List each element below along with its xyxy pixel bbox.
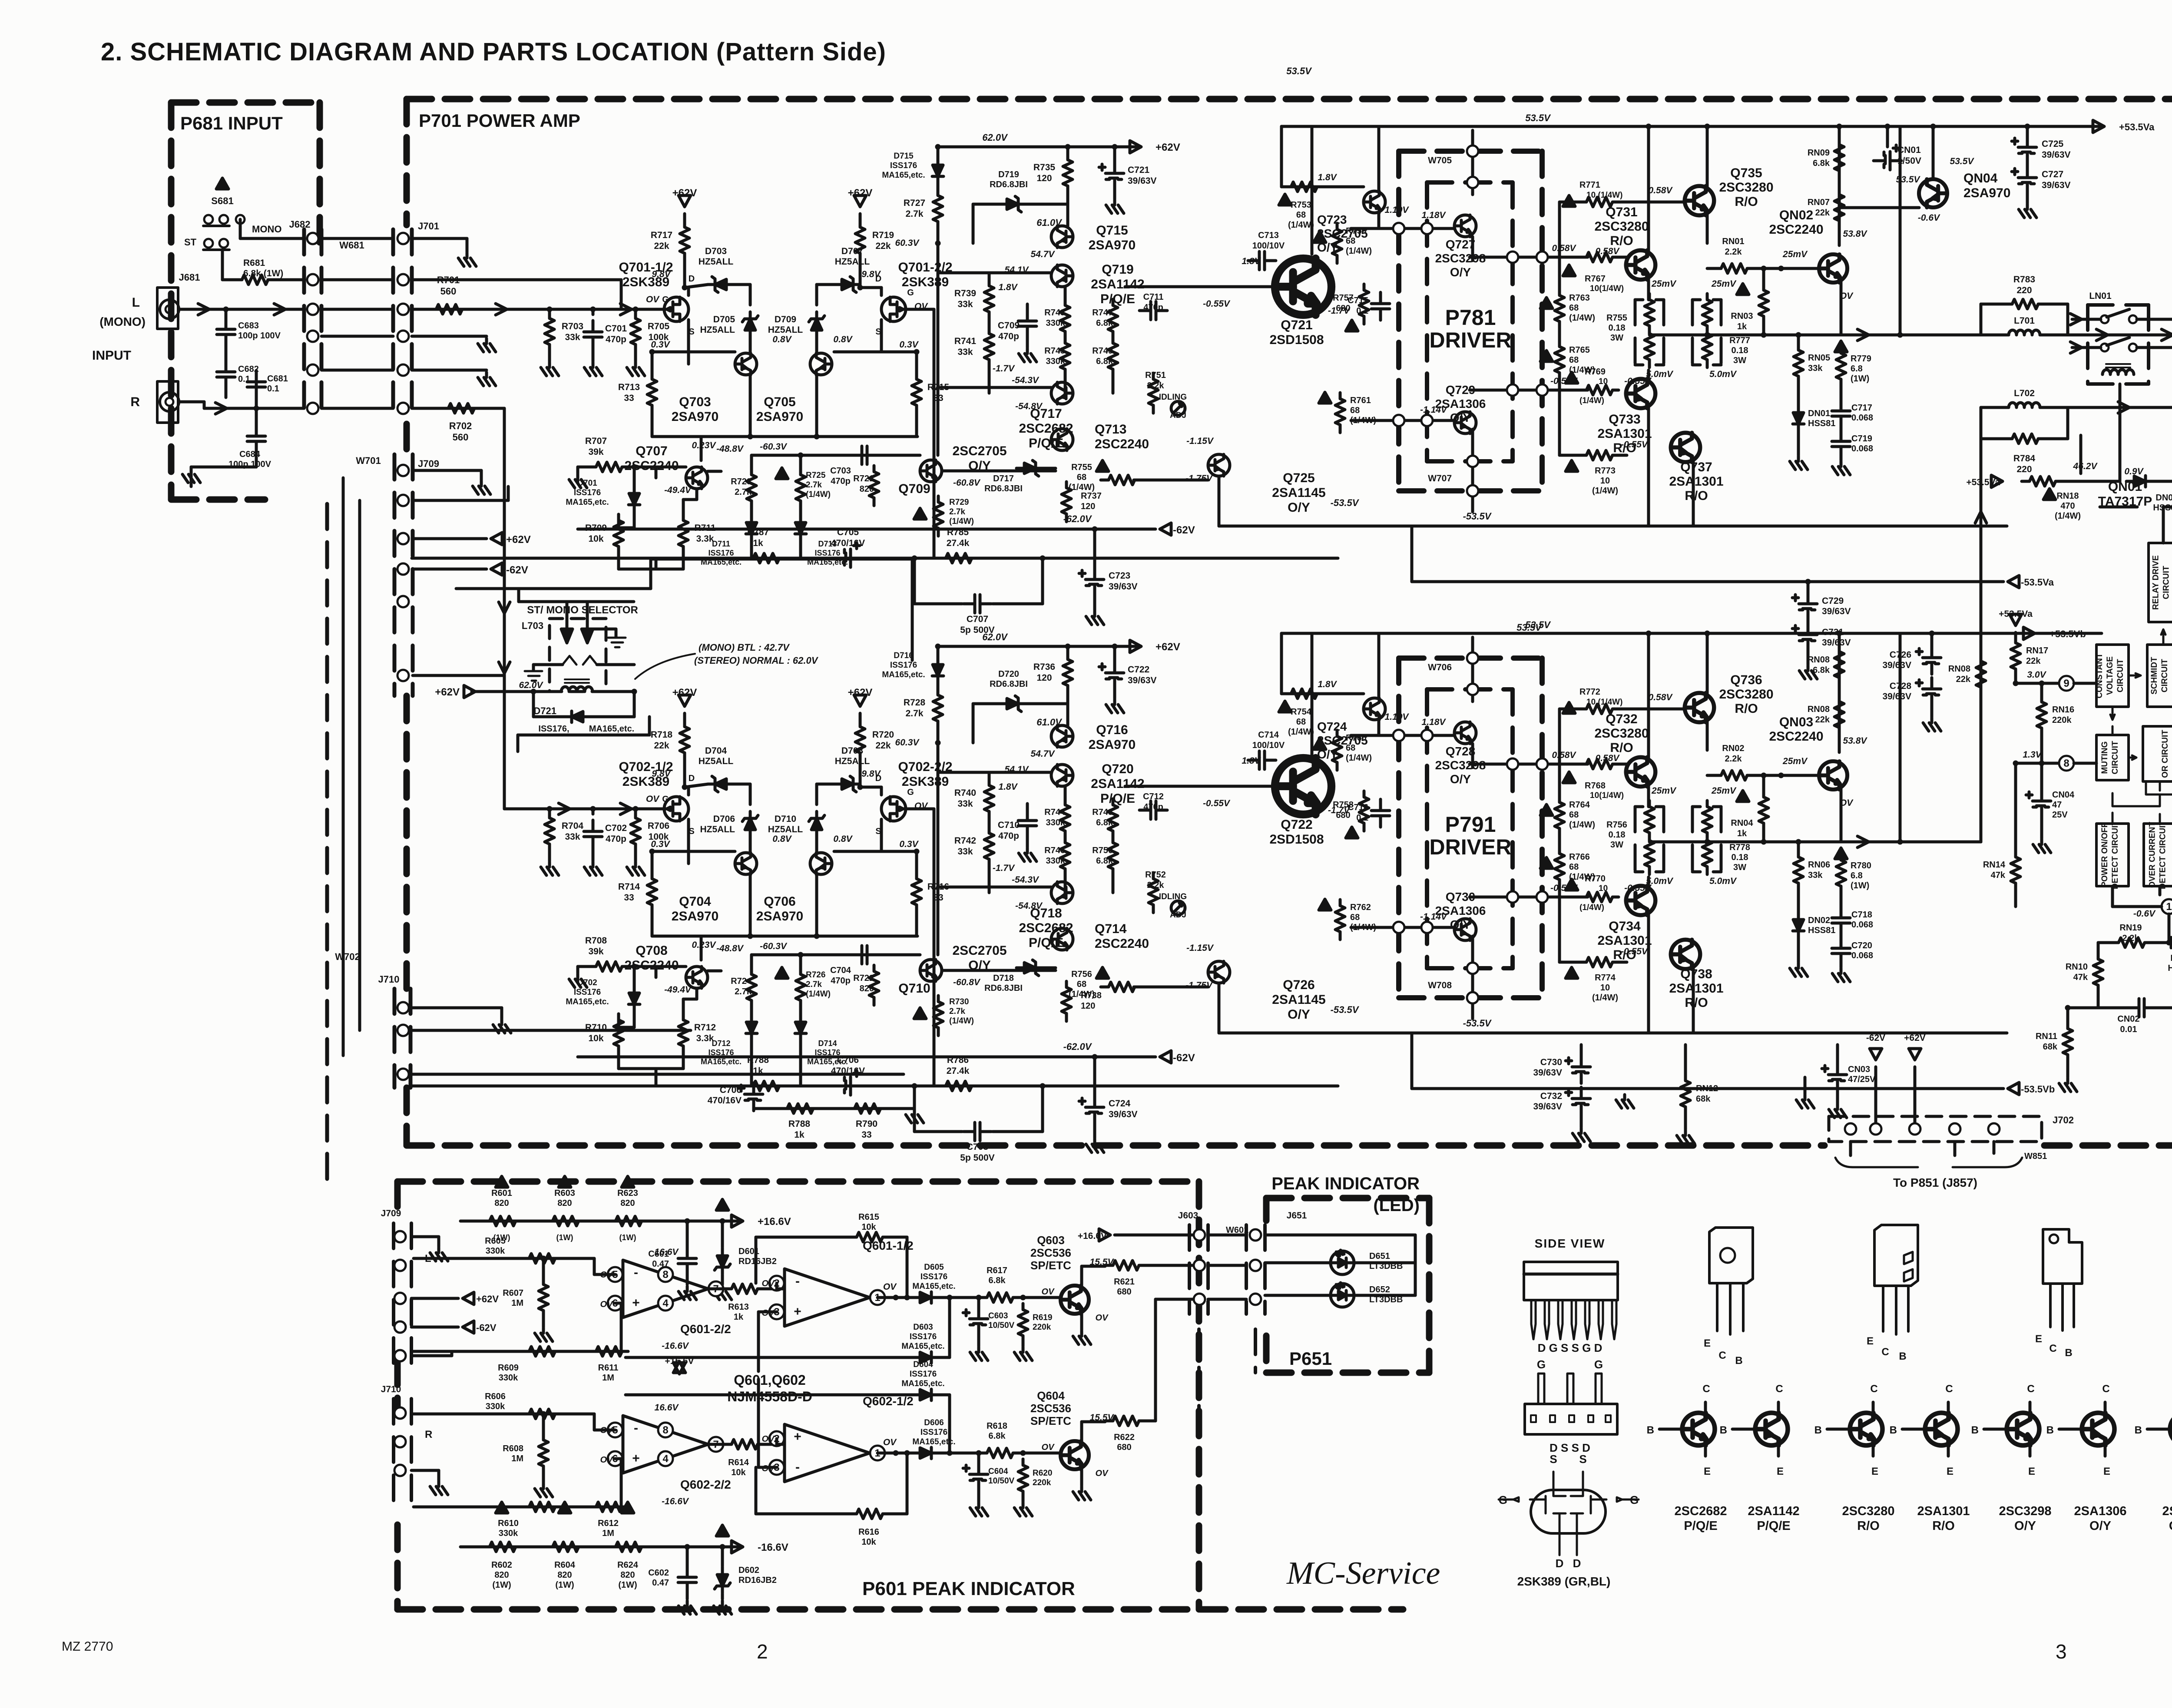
svg-text:6.8k: 6.8k (1813, 159, 1830, 168)
svg-text:-53.5V: -53.5V (1331, 497, 1360, 508)
svg-text:OV: OV (1042, 1443, 1055, 1452)
capacitor C601 (678, 1247, 696, 1275)
svg-text:1: 1 (2166, 901, 2172, 913)
svg-text:2SC3280: 2SC3280 (1719, 180, 1773, 195)
svg-text:C: C (1881, 1346, 1889, 1358)
resistor RN12 (1681, 1075, 1690, 1115)
stereo callout (635, 654, 695, 679)
svg-text:HZ5ALL: HZ5ALL (768, 824, 803, 834)
resistor R612 (588, 1502, 628, 1512)
wire R709 (617, 514, 620, 528)
svg-text:-48.8V: -48.8V (716, 943, 744, 953)
svg-text:D: D (1573, 1557, 1581, 1570)
warn R773 (1566, 967, 1578, 978)
svg-text:R756: R756 (1071, 970, 1092, 979)
svg-text:Q714: Q714 (1095, 922, 1127, 936)
wire C721 (1113, 646, 1116, 662)
svg-text:(1/4W): (1/4W) (1288, 727, 1314, 737)
resistor R777 lower (1702, 328, 1712, 367)
resistor R712 (679, 1014, 688, 1054)
svg-text:6.8k (1W): 6.8k (1W) (243, 268, 283, 278)
svg-text:R726: R726 (806, 970, 825, 980)
wire o2 plus in (758, 1311, 777, 1314)
wire J702 drop (1849, 1142, 1852, 1155)
connector J682 pin (307, 364, 318, 376)
svg-text:10: 10 (1599, 377, 1608, 386)
svg-text:0.3V: 0.3V (651, 340, 670, 350)
svg-text:0.58V: 0.58V (1596, 753, 1620, 763)
svg-text:R747: R747 (1092, 308, 1113, 318)
wire 62V rail (941, 645, 1139, 648)
wire RN18 to relay (2062, 480, 2120, 483)
wire Q723 collector to rail (1377, 126, 1381, 191)
svg-text:R743: R743 (1044, 308, 1065, 318)
capacitor C732 (1566, 1087, 1590, 1115)
svg-text:CIRCUIT: CIRCUIT (2116, 659, 2125, 692)
svg-text:R622: R622 (1114, 1433, 1135, 1442)
svg-text:120: 120 (1081, 502, 1095, 511)
resistor R704 (545, 812, 554, 852)
resistor RN07 (1834, 189, 1844, 228)
pin 4 (658, 1451, 673, 1466)
capacitor C702 (584, 820, 602, 848)
ground (2059, 1078, 2077, 1092)
capacitor C713 (1248, 252, 1276, 270)
transistor QN04 (1919, 179, 1947, 208)
zener diode D717 (1016, 460, 1043, 476)
wire -53.5V bus (1219, 1032, 2007, 1035)
svg-text:39/63V: 39/63V (2042, 180, 2071, 190)
wire J709 pin6 long (413, 674, 504, 677)
wire Q733 (1647, 370, 1650, 380)
connector J682 pin (307, 274, 318, 285)
wire C725 stack (2026, 126, 2029, 136)
svg-text:D606: D606 (924, 1418, 944, 1427)
warn R759 (1314, 738, 1326, 749)
svg-text:R762: R762 (1350, 903, 1371, 912)
svg-text:HZ5ALL: HZ5ALL (699, 257, 734, 267)
svg-text:C724: C724 (1109, 1099, 1131, 1109)
svg-text:39/63V: 39/63V (1533, 1068, 1562, 1078)
svg-text:RN07: RN07 (1808, 198, 1830, 207)
wire -0.55V out (1470, 389, 1588, 392)
svg-text:25mV: 25mV (1782, 756, 1808, 766)
wire Q603 emitter (1080, 1314, 1083, 1330)
svg-text:25mV: 25mV (1651, 279, 1677, 289)
svg-text:2.7k: 2.7k (806, 480, 822, 490)
diode D701 (629, 486, 640, 512)
pin 1 (870, 1290, 885, 1305)
resistor R784 (2004, 434, 2044, 444)
ground (627, 362, 645, 376)
resistor R611 (588, 1347, 628, 1356)
svg-text:(1/4W): (1/4W) (1346, 246, 1372, 256)
svg-text:470p: 470p (1143, 303, 1163, 312)
svg-text:22k: 22k (1815, 208, 1830, 218)
capacitor C604 (963, 1463, 988, 1491)
wire Q733 (1647, 877, 1650, 887)
svg-text:E: E (1704, 1466, 1711, 1477)
svg-text:-1.7V: -1.7V (993, 364, 1015, 374)
capacitor C711 (1139, 301, 1167, 320)
resistor R743 (1060, 299, 1070, 339)
svg-text:68: 68 (1569, 810, 1579, 820)
wire rail drop to Q723 (1280, 126, 1283, 187)
wire R715 (915, 352, 918, 373)
svg-text:R604: R604 (554, 1560, 576, 1570)
svg-text:R610: R610 (498, 1519, 519, 1528)
svg-text:-49.4V: -49.4V (664, 485, 692, 495)
svg-text:R763: R763 (1569, 293, 1590, 303)
svg-text:470p: 470p (831, 976, 851, 986)
svg-text:HZ5ALL: HZ5ALL (700, 325, 735, 335)
svg-text:W702: W702 (335, 951, 360, 962)
svg-text:R/O: R/O (1857, 1519, 1880, 1533)
ground (584, 362, 602, 376)
svg-text:0.3V: 0.3V (899, 839, 919, 849)
svg-text:R765: R765 (1569, 345, 1590, 355)
wire J709 pin1 gnd (413, 469, 481, 472)
wire Q709 row (942, 969, 1056, 972)
wire arrow (198, 304, 209, 315)
svg-text:100/10V: 100/10V (1252, 241, 1285, 251)
svg-text:1M: 1M (602, 1529, 614, 1538)
connector J710 pin (397, 1069, 409, 1080)
svg-text:C706: C706 (837, 1055, 859, 1065)
svg-text:D710: D710 (775, 814, 796, 824)
svg-text:OR CIRCUIT: OR CIRCUIT (2161, 730, 2170, 778)
svg-text:3.3k: 3.3k (696, 534, 714, 544)
warn R773 (1566, 460, 1578, 471)
svg-text:J651: J651 (1287, 1211, 1307, 1221)
svg-text:2SA970: 2SA970 (1089, 238, 1136, 252)
wire C730 (1580, 1045, 1583, 1056)
wire R615 loop (756, 1236, 849, 1239)
warn R753 (1279, 194, 1291, 205)
warn R755 (1096, 460, 1109, 471)
svg-text:8: 8 (662, 1424, 668, 1436)
svg-text:10k: 10k (861, 1537, 876, 1547)
wire RN11 (2066, 1008, 2069, 1023)
resistor RN03 (1759, 284, 1768, 324)
wire J701 row5 gnd (412, 369, 487, 372)
svg-text:+: + (632, 1296, 640, 1310)
wire D701 (633, 467, 636, 486)
resistor R614 (724, 1440, 764, 1449)
svg-text:ISS176: ISS176 (910, 1332, 937, 1341)
wire Q707 collector (708, 470, 721, 473)
svg-text:33k: 33k (957, 799, 973, 809)
capacitor C682 (217, 361, 235, 388)
block P701 POWER AMP top border (407, 96, 2172, 103)
svg-text:R779: R779 (1851, 354, 1871, 364)
svg-text:(1/4W): (1/4W) (2055, 511, 2081, 521)
svg-text:C: C (2102, 1383, 2109, 1395)
resistor R756 lower (1645, 834, 1654, 874)
resistor RN18 (2022, 477, 2062, 486)
warn R763 (1540, 298, 1553, 308)
wire opamp1 input bends (593, 1414, 596, 1430)
svg-text:39/63V: 39/63V (1533, 1102, 1562, 1112)
svg-text:33k: 33k (565, 332, 580, 342)
zener D602 (715, 1567, 730, 1593)
svg-text:39/63V: 39/63V (2042, 150, 2071, 160)
connector J682 pin (307, 331, 318, 342)
svg-text:8: 8 (2063, 758, 2069, 769)
wire R711 (682, 999, 685, 1014)
warn R725 (776, 468, 788, 479)
svg-text:R741: R741 (954, 336, 977, 346)
transistor Q730 (1454, 919, 1476, 940)
svg-text:SP/ETC: SP/ETC (1030, 1414, 1071, 1427)
svg-text:-53.5Va: -53.5Va (2021, 577, 2054, 588)
capacitor C726 (1916, 646, 1941, 674)
transistor Q725 (1208, 454, 1230, 476)
wire D703 (685, 784, 708, 787)
svg-text:R764: R764 (1569, 800, 1590, 810)
wire Q737 collector (1692, 461, 1695, 526)
svg-text:R725: R725 (806, 471, 826, 480)
block RELAY DRIVE CIRCUIT (2149, 543, 2172, 622)
wire arrow (559, 803, 570, 814)
wire D705 (749, 837, 752, 853)
wire diode net (877, 1296, 912, 1299)
wire J682-J701 row2 (321, 278, 393, 281)
svg-text:S681: S681 (211, 195, 233, 206)
svg-text:LN01: LN01 (2089, 291, 2112, 301)
svg-text:R706: R706 (648, 821, 669, 831)
wire pin9 row (2016, 682, 2059, 685)
zener diode D704 (708, 776, 734, 792)
svg-text:60.3V: 60.3V (895, 238, 920, 248)
svg-text:B: B (1647, 1424, 1654, 1436)
svg-text:27.4k: 27.4k (947, 1066, 970, 1076)
svg-text:Q731: Q731 (1606, 205, 1637, 219)
wire stage bottom (617, 1054, 620, 1069)
wire R739/R741 (988, 273, 991, 280)
emitter resistor bracket 1 (1634, 807, 1637, 872)
svg-text:OV: OV (762, 1279, 775, 1288)
ground (1829, 1104, 1847, 1118)
wire R767 row (1619, 256, 1627, 259)
wire C684 gnd (255, 371, 258, 425)
svg-text:R771: R771 (1579, 180, 1600, 190)
resistor R603 (545, 1216, 585, 1226)
wire 0.58V out (1470, 763, 1588, 766)
svg-text:C702: C702 (605, 823, 627, 833)
wire Q727 emitter to Q729 (1471, 744, 1474, 768)
svg-text:68: 68 (1569, 303, 1579, 313)
resistor R709 (614, 514, 623, 554)
transistor 2SA1306 legend (2082, 1413, 2115, 1446)
svg-text:0.1: 0.1 (267, 384, 279, 394)
svg-text:C732: C732 (1540, 1091, 1562, 1101)
wire -0.55V out (1470, 896, 1588, 899)
svg-text:R735: R735 (1033, 162, 1056, 172)
wire C709 (1026, 804, 1029, 809)
transistor Q713 (1051, 429, 1073, 450)
wire Q723 emitter (1377, 213, 1381, 228)
wire R788 row (754, 1107, 914, 1110)
pin 1 (870, 1446, 885, 1460)
ground (2033, 839, 2051, 853)
svg-text:22k: 22k (2026, 656, 2041, 666)
wire FET1 drain (687, 288, 690, 295)
svg-text:MONO: MONO (252, 224, 281, 235)
wire NFB (412, 1085, 1338, 1088)
transistor Q604 (1061, 1441, 1089, 1470)
connector J681 jack L (157, 288, 178, 329)
wire driver center (1471, 637, 1474, 702)
svg-text:560: 560 (440, 286, 457, 297)
pin (1507, 252, 1518, 263)
svg-text:R621: R621 (1114, 1277, 1135, 1287)
resistor R788 (779, 1104, 819, 1113)
svg-text:R756: R756 (1606, 820, 1627, 830)
svg-text:D603: D603 (913, 1323, 933, 1332)
resistor R785 (938, 553, 978, 563)
resistor R755 (1101, 475, 1141, 485)
resistor R767 (1579, 252, 1619, 262)
svg-text:0.1: 0.1 (1356, 813, 1368, 823)
svg-text:(1/4W): (1/4W) (806, 490, 831, 499)
svg-text:0.47: 0.47 (652, 1578, 669, 1588)
svg-text:R769: R769 (1585, 367, 1606, 377)
resistor R771 (1579, 197, 1619, 207)
svg-text:2SD1508: 2SD1508 (1269, 333, 1324, 347)
connector J709 peak pin (394, 1260, 406, 1271)
svg-text:10k: 10k (731, 1468, 746, 1477)
warn R757 (1346, 320, 1358, 331)
wire J710 pin1 gnd (411, 1006, 502, 1010)
wire RN17 (2014, 677, 2017, 683)
svg-text:GR/BL: GR/BL (2169, 1519, 2172, 1533)
wire rail to output node (1899, 126, 1902, 335)
resistor RN08 (1834, 645, 1844, 685)
terminal -62V (491, 563, 502, 575)
resistor R703 (545, 312, 554, 352)
svg-text:Q708: Q708 (636, 943, 667, 958)
svg-text:-0.6V: -0.6V (1918, 213, 1940, 223)
connector J710 (393, 989, 397, 1088)
svg-text:IDLING: IDLING (1159, 892, 1187, 901)
wire Q703 emitter (749, 348, 752, 353)
svg-text:L702: L702 (2014, 388, 2035, 398)
svg-text:Q713: Q713 (1095, 422, 1126, 437)
diode DN01 (1793, 405, 1804, 431)
svg-text:470p: 470p (831, 477, 851, 486)
svg-text:39/63V: 39/63V (1822, 638, 1851, 648)
resistor R753 (1283, 182, 1323, 192)
svg-text:C727: C727 (2042, 169, 2063, 179)
svg-text:9.8V: 9.8V (652, 769, 671, 779)
resistor R708 (588, 962, 628, 971)
svg-text:3.0V: 3.0V (2027, 670, 2046, 680)
wire R763-R765 (1558, 257, 1561, 289)
svg-text:2SA1306: 2SA1306 (2074, 1504, 2127, 1518)
svg-text:D711: D711 (712, 540, 730, 548)
wire R713 top (651, 851, 654, 873)
svg-text:-1.75V: -1.75V (1185, 473, 1213, 483)
selector contacts (563, 656, 597, 665)
svg-text:MA165,etc.: MA165,etc. (882, 171, 925, 180)
package drawing tab2 (1874, 1225, 1918, 1286)
resistor R725 (796, 469, 805, 509)
svg-text:OV: OV (883, 1282, 897, 1292)
resistor R737 (1062, 482, 1071, 522)
wire Q703 emitter (749, 848, 752, 853)
resistor R754 (1283, 689, 1323, 698)
svg-text:ISS176: ISS176 (574, 488, 601, 497)
wire diode net (877, 1452, 912, 1455)
resistor R755a (1645, 294, 1654, 334)
wire D719 (973, 702, 999, 705)
selector box L703 (550, 619, 606, 692)
ground (1616, 1095, 1634, 1108)
wire QN04 base row (1839, 206, 1919, 209)
svg-text:B: B (1890, 1424, 1897, 1436)
transistor 2SC3298 legend (2007, 1413, 2040, 1446)
transistor Q720 (1051, 765, 1073, 786)
wire 820 rail (460, 1546, 738, 1549)
connector J701 pin (397, 274, 409, 285)
wire Q725 collector drop (1218, 476, 1221, 526)
pin W706 (1467, 652, 1478, 664)
ground (1086, 611, 1104, 625)
svg-text:+62V: +62V (848, 687, 873, 698)
wire Q729 base (1351, 419, 1454, 422)
svg-text:2SA1145: 2SA1145 (1272, 993, 1325, 1007)
svg-text:2SC2240: 2SC2240 (1769, 729, 1823, 744)
wire RN01 row (1707, 774, 1713, 777)
svg-text:-53.5V: -53.5V (1463, 1018, 1492, 1029)
terminal +53.5Vb rail (2023, 627, 2035, 639)
svg-text:R788: R788 (788, 1119, 811, 1129)
wire arrow (499, 602, 510, 613)
svg-text:RN05: RN05 (1808, 353, 1830, 363)
wire legend leads 2SA1306 (2059, 1428, 2082, 1431)
ground (2019, 204, 2036, 218)
svg-text:10 (1/4W): 10 (1/4W) (1586, 191, 1622, 200)
svg-text:470: 470 (2060, 501, 2075, 511)
wire input L (179, 308, 304, 311)
terminal 16.6V (732, 1215, 743, 1227)
capacitor C721 (1099, 162, 1124, 190)
svg-text:470/16V: 470/16V (831, 1066, 865, 1076)
svg-text:C705: C705 (837, 527, 859, 537)
wire +16.6V to J603 (1115, 1234, 1195, 1237)
pin W708 (1467, 963, 1478, 974)
wire cable vertical 2 (358, 500, 361, 1030)
svg-text:R: R (425, 1429, 432, 1440)
wire FET gate right (906, 308, 934, 311)
svg-text:0.58V: 0.58V (1596, 246, 1620, 256)
svg-text:-0.55V: -0.55V (1621, 440, 1649, 450)
block SCHMIDT CIRCUIT (2147, 645, 2172, 707)
ground (584, 862, 602, 875)
wire J603 pin3 feed (1156, 1298, 1195, 1301)
svg-text:53.5V: 53.5V (1896, 175, 1921, 185)
resistor R758 (1359, 791, 1369, 831)
svg-text:CONSTANT: CONSTANT (2095, 653, 2104, 698)
svg-text:MA165,etc.: MA165,etc. (901, 1342, 944, 1351)
wire -60.3V row (752, 454, 920, 457)
svg-text:RN10: RN10 (2066, 962, 2088, 972)
wire FET2 drain (880, 288, 883, 295)
wire pin1 feed (2111, 886, 2114, 907)
svg-text:820: 820 (494, 1198, 509, 1208)
resistor R746 (1060, 837, 1070, 877)
